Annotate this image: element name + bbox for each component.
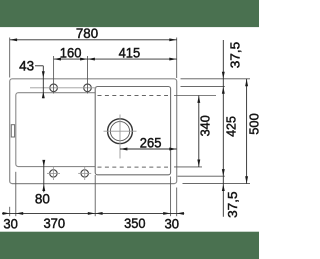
svg-text:80: 80 [35,192,50,207]
svg-text:37,5: 37,5 [229,42,243,69]
svg-text:43: 43 [19,59,34,74]
svg-text:265: 265 [140,135,162,150]
svg-text:340: 340 [199,115,213,136]
svg-text:425: 425 [225,116,239,137]
svg-text:350: 350 [124,216,145,231]
svg-text:500: 500 [247,113,259,135]
svg-text:30: 30 [165,217,180,232]
svg-text:37,5: 37,5 [226,191,240,218]
svg-text:370: 370 [43,216,65,231]
svg-text:30: 30 [3,216,18,231]
svg-text:415: 415 [119,45,141,60]
svg-text:780: 780 [76,26,98,41]
svg-text:160: 160 [60,46,82,61]
